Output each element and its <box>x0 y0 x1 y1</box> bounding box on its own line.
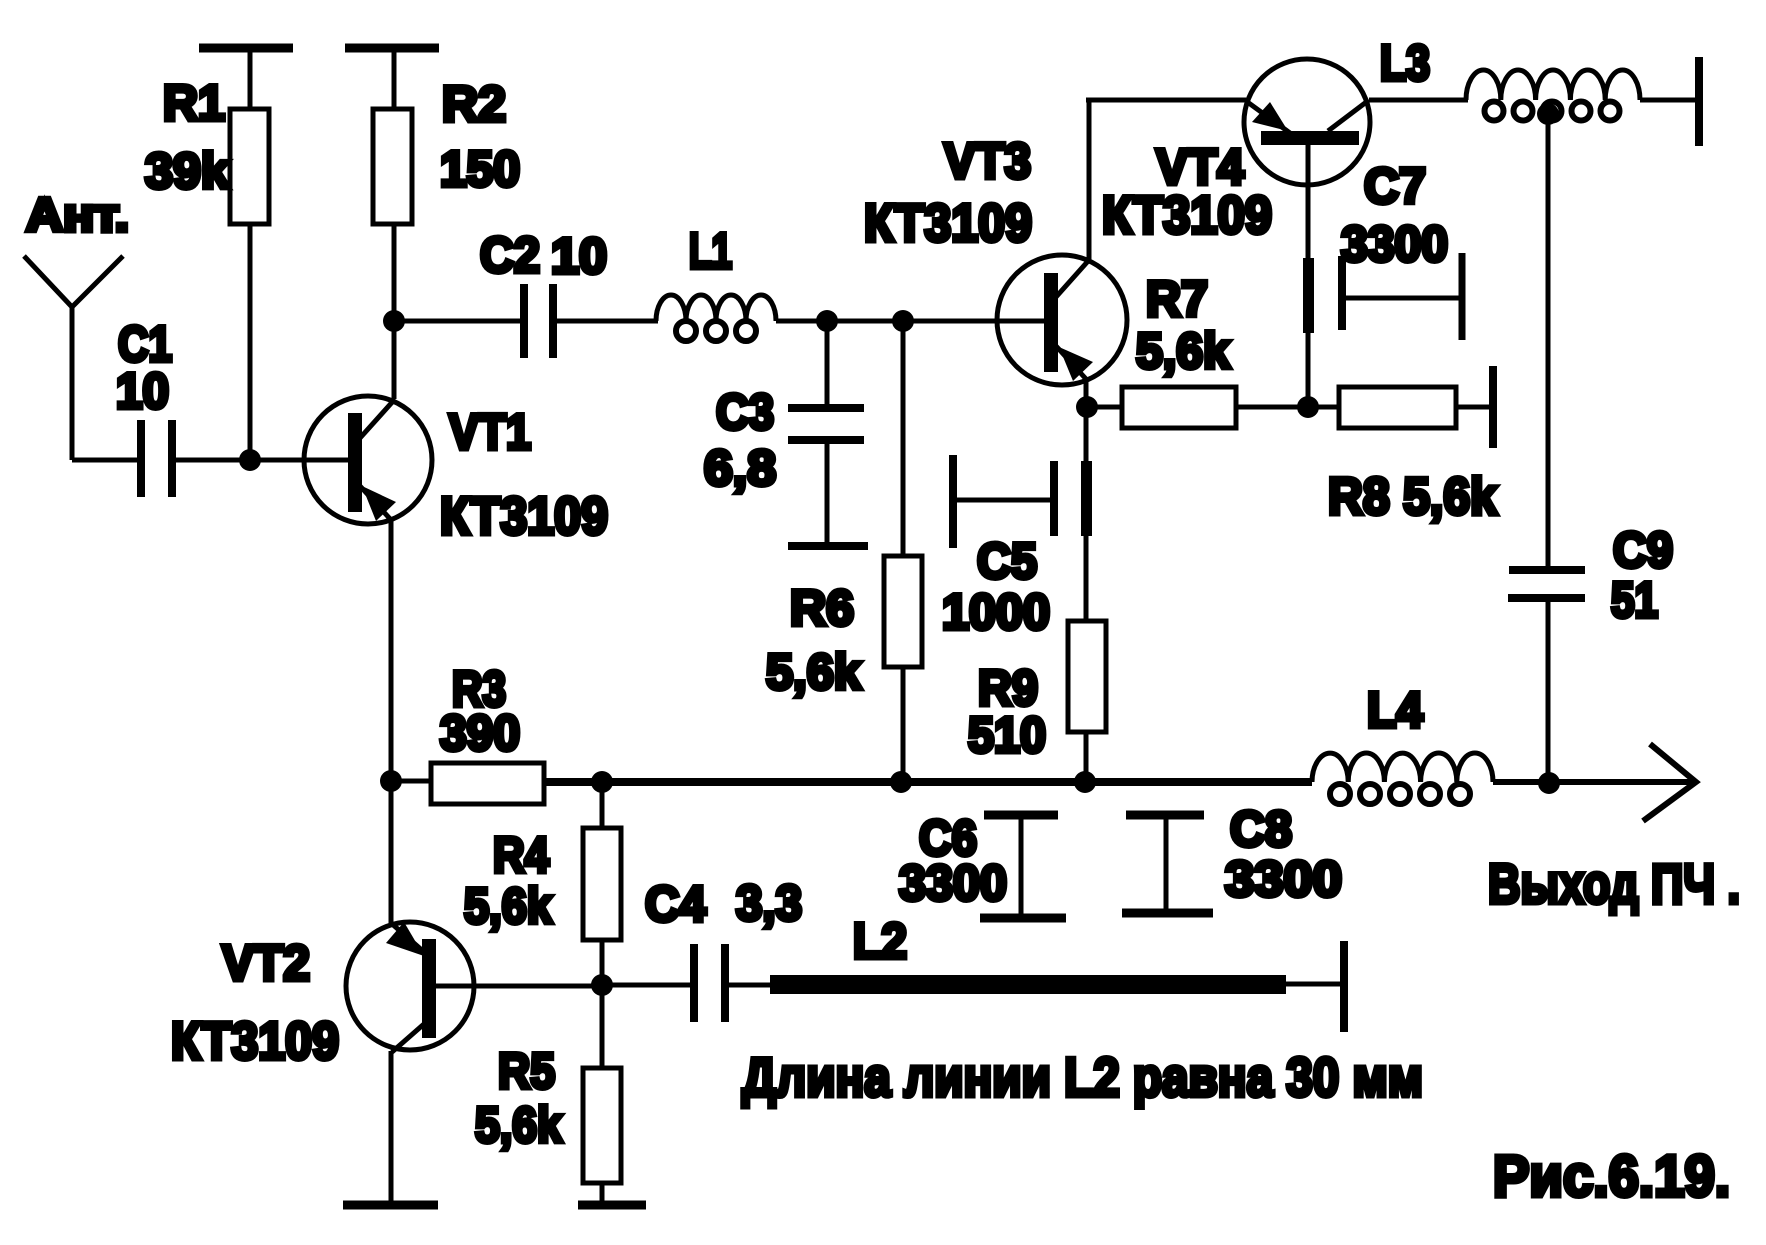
wire node to C2 <box>394 319 521 324</box>
wire VT3 emitter down <box>1084 379 1089 407</box>
node C9 bottom / bus <box>1538 772 1560 794</box>
svg-text:510: 510 <box>968 707 1046 763</box>
svg-text:5,6k: 5,6k <box>766 644 861 700</box>
svg-text:Рис.6.19.: Рис.6.19. <box>1493 1144 1730 1209</box>
output arrow head <box>1643 744 1696 821</box>
power rail bar 2 <box>345 48 439 109</box>
svg-text:VT2: VT2 <box>222 935 310 991</box>
inductor L4 <box>1312 682 1493 804</box>
svg-text:6,8: 6,8 <box>704 440 776 496</box>
node collector VT1 / R2 / C2 <box>383 310 405 332</box>
resistor R5 <box>475 985 621 1204</box>
svg-text:R6: R6 <box>790 580 854 636</box>
antenna Ант. <box>24 188 129 460</box>
capacitor C1 <box>116 316 172 497</box>
svg-text:5,6k: 5,6k <box>475 1097 562 1153</box>
svg-text:10: 10 <box>116 363 169 419</box>
wire R2 bottom to collector node <box>392 224 397 321</box>
svg-text:51: 51 <box>1611 572 1658 628</box>
resistor R6 <box>766 321 922 782</box>
svg-text:VT3: VT3 <box>944 133 1031 189</box>
svg-text:R1: R1 <box>163 75 225 131</box>
svg-text:R5: R5 <box>498 1043 555 1099</box>
svg-text:КТ3109: КТ3109 <box>864 194 1032 253</box>
node R7 / R8 / VT4 base <box>1297 396 1319 418</box>
svg-text:C3: C3 <box>716 384 774 440</box>
wire bus node to R3 <box>391 779 431 784</box>
inductor L3 <box>1380 35 1640 121</box>
node R6 tap <box>892 310 914 332</box>
svg-text:КТ3109: КТ3109 <box>1102 186 1272 245</box>
wire L3 tap down to C9 <box>1546 114 1551 566</box>
wire VT1 collector up <box>392 321 397 399</box>
svg-text:VT1: VT1 <box>449 404 531 460</box>
transistor VT2 <box>171 922 602 1071</box>
capacitor C7 <box>1303 158 1462 340</box>
node bus R4 <box>591 771 613 793</box>
svg-text:39k: 39k <box>145 143 229 199</box>
resistor R1 <box>145 75 269 224</box>
capacitor C9 <box>1508 522 1673 783</box>
resistor R3 <box>431 661 544 804</box>
ground VT2 <box>343 1201 438 1210</box>
svg-text:5,6k: 5,6k <box>464 878 552 934</box>
svg-text:КТ3109: КТ3109 <box>440 487 608 546</box>
inductor L1 <box>656 223 776 341</box>
svg-text:3300: 3300 <box>1225 851 1342 907</box>
node bus R6 <box>890 771 912 793</box>
svg-text:L2: L2 <box>853 913 907 969</box>
svg-text:C5: C5 <box>977 533 1037 589</box>
svg-text:R4: R4 <box>493 827 549 883</box>
wire L4 to output arrow <box>1493 779 1692 785</box>
wire C1 to VT1 base <box>175 458 348 463</box>
svg-text:L1: L1 <box>689 223 732 279</box>
capacitor C4 <box>645 875 802 1022</box>
wire C2 to L1 <box>556 319 658 324</box>
svg-text:C9: C9 <box>1613 522 1673 578</box>
stripline L2 <box>770 913 1344 1032</box>
capacitor C5 <box>942 455 1092 640</box>
capacitor C3 <box>704 321 868 546</box>
svg-text:10: 10 <box>551 228 607 284</box>
svg-text:L3: L3 <box>1380 35 1430 91</box>
svg-text:L4: L4 <box>1367 682 1423 738</box>
svg-text:1000: 1000 <box>942 584 1050 640</box>
wire VT4 collector to L3 <box>1369 98 1468 103</box>
resistor R2 <box>373 76 520 224</box>
power rail bar 1 <box>199 48 293 109</box>
node bus R9 <box>1074 771 1096 793</box>
svg-text:Выход ПЧ .: Выход ПЧ . <box>1488 852 1740 915</box>
svg-text:C2: C2 <box>480 227 540 283</box>
wire L3 to output terminal <box>1640 98 1697 103</box>
wire VT1 emitter down to bus <box>389 521 394 781</box>
bus wire R3 to L4 <box>544 778 1312 786</box>
svg-text:150: 150 <box>440 141 520 197</box>
svg-text:R8 5,6k: R8 5,6k <box>1328 468 1497 526</box>
wire bus node down to VT2 emitter <box>389 781 394 924</box>
resistor R4 <box>464 782 621 985</box>
wire VT3 collector up and across to VT4 <box>1086 100 1246 262</box>
transistor VT1 <box>304 396 608 546</box>
node L3 tap <box>1537 103 1559 125</box>
wire VT4 base stem down <box>1306 143 1311 407</box>
svg-text:3,3: 3,3 <box>736 875 802 931</box>
wire R1 bottom to base node <box>248 224 253 460</box>
capacitor C2 <box>480 227 607 358</box>
resistor R9 <box>968 407 1106 782</box>
svg-text:Ант.: Ант. <box>26 188 129 241</box>
capacitor C8 <box>1122 801 1342 913</box>
svg-text:3300: 3300 <box>1341 216 1448 272</box>
svg-text:3300: 3300 <box>899 855 1007 911</box>
wire C4 to L2 <box>728 983 772 988</box>
terminal bar after L3 <box>1695 57 1703 146</box>
svg-text:C4: C4 <box>645 876 706 932</box>
svg-text:390: 390 <box>440 705 520 761</box>
transistor VT4 <box>1102 59 1370 245</box>
svg-text:R7: R7 <box>1146 271 1208 327</box>
wire VT2 collector to ground <box>389 1051 394 1204</box>
svg-text:C8: C8 <box>1230 801 1292 857</box>
node VT2 base / R4 / R5 / C4 <box>591 974 613 996</box>
svg-text:КТ3109: КТ3109 <box>171 1012 339 1071</box>
resistor R8 <box>1328 366 1497 526</box>
resistor R7 <box>1087 271 1339 428</box>
wire antenna to C1 <box>72 458 139 463</box>
node base VT1 <box>239 449 261 471</box>
svg-text:R2: R2 <box>442 76 506 132</box>
capacitor C6 <box>899 810 1066 918</box>
node C3 tap <box>816 310 838 332</box>
svg-text:5,6k: 5,6k <box>1136 323 1230 379</box>
svg-text:Длина линии L2 равна 30 мм: Длина линии L2 равна 30 мм <box>742 1046 1423 1108</box>
node bus left / VT1 emitter / VT2 emitter <box>380 770 402 792</box>
ground R5 <box>578 1201 646 1210</box>
wire L1 to VT3 base <box>776 319 1044 324</box>
svg-text:C7: C7 <box>1364 158 1426 214</box>
transistor VT3 <box>864 133 1127 385</box>
wire VT2 base node to C4 <box>602 983 691 988</box>
node VT3 emitter / R7 / R9 <box>1076 396 1098 418</box>
